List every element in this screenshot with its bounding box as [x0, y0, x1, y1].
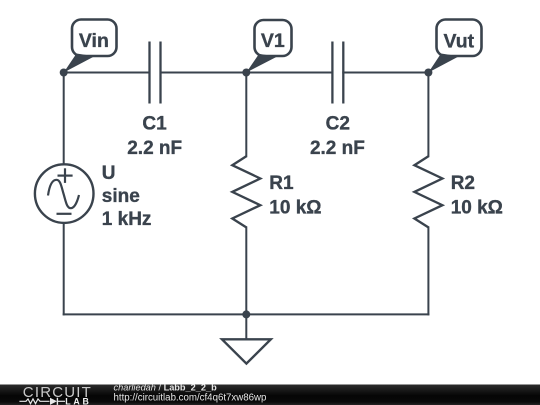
wire R1 bottom to bottom rail	[245, 227, 247, 314]
wire C2 right plate to node Vut	[343, 72, 428, 74]
CircuitLab logo	[19, 384, 92, 405]
node V1 flag label	[246, 20, 291, 73]
resistor R2	[414, 156, 442, 227]
wire C1 right plate to node V1	[161, 72, 247, 74]
wire ground stub	[245, 314, 247, 339]
svg-text:U: U	[102, 163, 116, 184]
svg-text:sine: sine	[102, 186, 140, 207]
wire R2 bottom to bottom rail	[427, 227, 429, 314]
svg-text:R1: R1	[269, 173, 294, 194]
svg-text:10 kΩ: 10 kΩ	[451, 198, 503, 219]
node V1 junction dot	[242, 69, 250, 77]
wire node V1 to C2 left plate	[246, 72, 332, 74]
wire source U minus terminal down to bottom rail	[63, 223, 65, 315]
voltage source U (sine)	[35, 164, 94, 223]
svg-text:10 kΩ: 10 kΩ	[269, 198, 321, 219]
svg-text:C1: C1	[142, 113, 167, 134]
svg-text:Vin: Vin	[79, 30, 109, 52]
wire bottom ground rail	[64, 313, 429, 315]
svg-text:V1: V1	[261, 30, 285, 52]
svg-text:R2: R2	[451, 173, 475, 194]
svg-text:C2: C2	[326, 113, 350, 134]
node Vin junction dot	[60, 69, 68, 77]
node Vut junction dot	[424, 69, 432, 77]
svg-text:charliedah / Labb_2_2_b: charliedah / Labb_2_2_b	[114, 382, 218, 392]
svg-text:2.2 nF: 2.2 nF	[310, 138, 365, 159]
svg-text:1 kHz: 1 kHz	[102, 209, 152, 230]
svg-text:2.2 nF: 2.2 nF	[127, 138, 182, 159]
resistor R1	[232, 156, 260, 227]
wire node V1 down to R1 top	[245, 73, 247, 157]
svg-text:LAB: LAB	[65, 397, 91, 405]
capacitor C1	[150, 42, 161, 104]
node Vut flag label	[428, 20, 481, 73]
wire node Vut down to R2 top	[427, 73, 429, 157]
wire node Vin down to source U plus terminal	[63, 73, 65, 165]
ground	[222, 339, 271, 363]
capacitor C2	[332, 42, 343, 104]
svg-text:Vut: Vut	[443, 31, 474, 53]
node Vin flag label	[64, 20, 117, 73]
ground junction dot	[242, 310, 250, 318]
wire node Vin to C1 left plate	[64, 72, 150, 74]
svg-text:http://circuitlab.com/cf4q6t7x: http://circuitlab.com/cf4q6t7xw86wp	[114, 392, 267, 403]
